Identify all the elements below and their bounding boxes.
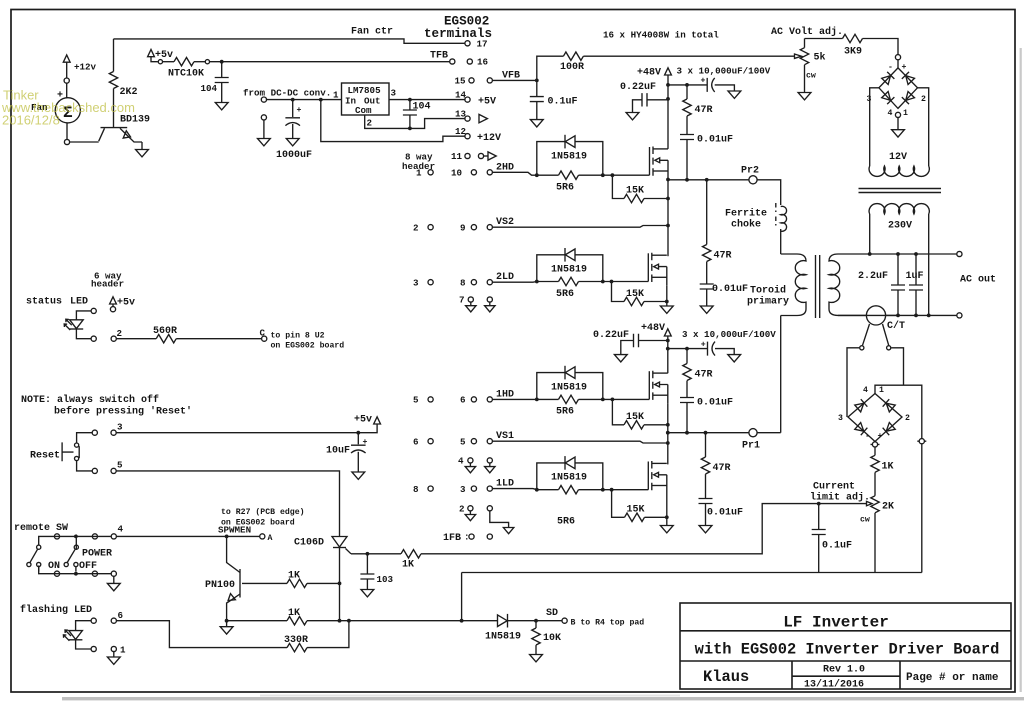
connector pin: [158, 60, 162, 64]
wire: [221, 83, 223, 103]
+12V rail wire: [321, 100, 465, 142]
wire: [70, 141, 99, 143]
node pin: [64, 139, 69, 144]
junction: [601, 398, 605, 402]
svg-text:Pr1: Pr1: [742, 441, 760, 452]
junction: [534, 619, 538, 623]
svg-text:2K2: 2K2: [120, 87, 138, 98]
capacitor body: [403, 110, 417, 115]
junction: [460, 619, 464, 623]
junction: [666, 441, 670, 445]
pin: [75, 456, 79, 460]
junction: [356, 431, 360, 435]
resistor 47R lower: [705, 433, 707, 457]
svg-text:with EGS002 Inverter Driver Bo: with EGS002 Inverter Driver Board: [695, 641, 1000, 659]
pin: [111, 646, 116, 651]
wire: [715, 349, 734, 355]
svg-text:7: 7: [459, 295, 465, 306]
svg-text:+48V: +48V: [641, 323, 665, 334]
capacitor 1uF: [915, 254, 917, 285]
resistor 5R6: [537, 489, 559, 491]
terminal VS1: [487, 439, 492, 444]
junction: [665, 515, 669, 519]
junction: [704, 431, 708, 435]
resistor body: [871, 496, 879, 513]
primary return to Pr1: [780, 316, 782, 433]
wire 1HD: [492, 398, 536, 400]
fan motor M1: [55, 98, 80, 123]
svg-text:Rev 1.0: Rev 1.0: [823, 665, 865, 676]
pin: [860, 346, 864, 350]
svg-text:13: 13: [455, 109, 467, 120]
pin: [74, 562, 78, 566]
mosfet Q5 HY4008W: [648, 461, 667, 494]
mosfet Q4 HY4008W: [649, 371, 668, 404]
wire: [120, 128, 142, 142]
diode body: [565, 456, 575, 470]
riser to current limit rail: [461, 573, 463, 621]
wire Fan ctr: [114, 39, 465, 43]
wire: [915, 290, 917, 315]
svg-text:from DC-DC conv.: from DC-DC conv.: [243, 88, 331, 99]
terminal TFB: [450, 59, 455, 64]
ground under source: [666, 494, 668, 526]
diode body: [565, 366, 575, 380]
diode D3 bottom-left: [881, 91, 894, 104]
capacitor 104: [221, 62, 223, 78]
svg-text:2: 2: [117, 328, 123, 339]
wire: [116, 338, 156, 340]
resistor body: [559, 277, 579, 285]
junction: [927, 314, 931, 318]
led body: [63, 630, 82, 641]
terminal 2HD: [487, 170, 492, 175]
ground: [660, 526, 673, 533]
bridge top to terminal wire: [875, 385, 922, 438]
wire: [77, 461, 93, 471]
wire: [686, 140, 688, 180]
svg-text:0.1uF: 0.1uF: [548, 97, 578, 108]
ground: [286, 139, 299, 146]
diode body: [565, 248, 575, 262]
resistor 5R6: [537, 281, 559, 283]
wire: [706, 289, 708, 306]
svg-text:1: 1: [333, 90, 339, 101]
resistor body: [701, 457, 709, 474]
wire: [267, 99, 342, 101]
wire: [775, 203, 777, 226]
svg-text:11: 11: [451, 151, 463, 162]
+12v supply arrow: [63, 55, 70, 62]
svg-text:15K: 15K: [626, 412, 644, 423]
bottom rail: [462, 572, 922, 574]
svg-text:2: 2: [413, 223, 419, 234]
ground: [258, 139, 271, 146]
pin: [92, 571, 97, 576]
wire: [67, 549, 75, 562]
primary leads: [870, 88, 929, 166]
svg-text:Pr2: Pr2: [741, 166, 759, 177]
svg-text:Toroid: Toroid: [750, 285, 786, 297]
terminal 1LD: [487, 486, 492, 491]
svg-text:10uF: 10uF: [326, 446, 350, 457]
svg-text:header: header: [91, 279, 124, 290]
wire: [575, 142, 603, 176]
pole 1: [37, 545, 41, 549]
mosfet Q2 HY4008W: [650, 147, 669, 180]
wire pin4 SPWMEN: [116, 535, 259, 537]
resistor 2K2: [113, 39, 115, 72]
ground: [798, 93, 811, 100]
wire: [668, 432, 749, 434]
resistor 5R6: [537, 398, 559, 400]
svg-text:A: A: [268, 534, 273, 543]
junction: [225, 619, 229, 623]
diode D2 top-right: [902, 72, 915, 85]
pin to ground jog: [487, 506, 492, 511]
wire: [579, 281, 649, 283]
svg-text:+: +: [297, 106, 302, 115]
wire 2HD: [492, 172, 536, 175]
top row: [39, 536, 112, 545]
svg-text:0.22uF: 0.22uF: [620, 82, 656, 93]
svg-text:14: 14: [455, 90, 467, 101]
pin: [262, 336, 267, 341]
wire: [644, 424, 668, 426]
resistor 15K: [612, 490, 625, 518]
capacitor 104: [409, 100, 411, 110]
capacitor body: [215, 78, 229, 83]
svg-text:4: 4: [118, 524, 124, 535]
svg-text:1K: 1K: [288, 571, 300, 582]
diode D4 bottom-right: [902, 91, 915, 104]
wire: [757, 180, 781, 205]
capacitor bank 10000uF: [668, 84, 707, 86]
wiper arrow: [795, 54, 802, 58]
svg-text:1K: 1K: [288, 608, 300, 619]
input terminal: [261, 97, 266, 102]
svg-text:4: 4: [863, 386, 868, 395]
junction: [225, 535, 229, 539]
svg-text:8: 8: [460, 278, 466, 289]
resistor body: [559, 486, 579, 494]
ground pin: [113, 576, 115, 583]
svg-text:+5v: +5v: [354, 415, 372, 426]
capacitor body: [812, 530, 826, 535]
svg-text:1: 1: [120, 645, 126, 656]
terminal 17: [465, 41, 470, 46]
junction: [601, 280, 605, 284]
pin: [260, 534, 265, 539]
input return pin: [261, 115, 266, 120]
junction: [685, 83, 689, 87]
svg-text:3: 3: [867, 95, 872, 104]
svg-text:47R: 47R: [714, 251, 732, 262]
pin: [110, 307, 115, 312]
svg-text:10: 10: [451, 168, 462, 179]
pin: [111, 618, 116, 623]
capacitor body: [634, 334, 639, 347]
svg-text:SD: SD: [546, 608, 558, 619]
gate wire / resistor 1K: [351, 553, 401, 555]
pin: [37, 562, 41, 566]
svg-text:0.01uF: 0.01uF: [707, 508, 743, 519]
junction: [666, 224, 670, 228]
node Pr2: [749, 176, 757, 184]
wire: [226, 621, 228, 627]
pin: [919, 439, 924, 444]
watermark Tinker www.thebackshed.com 2016/12/8: [1, 88, 135, 128]
resistor body: [287, 617, 307, 625]
wire: [76, 640, 92, 649]
junction: [666, 423, 670, 427]
primary winding: [781, 254, 806, 316]
wire: [113, 89, 115, 128]
wire: [921, 444, 923, 573]
junction: [535, 173, 539, 177]
resistor body: [559, 171, 579, 179]
svg-text:15K: 15K: [627, 504, 645, 515]
wire: [644, 198, 668, 200]
svg-text:100R: 100R: [560, 62, 584, 73]
svg-text:1N5819: 1N5819: [551, 265, 587, 276]
secondary winding: [829, 254, 840, 315]
svg-text:0.22uF: 0.22uF: [593, 330, 629, 341]
svg-text:Klaus: Klaus: [703, 668, 749, 686]
resistor body: [703, 245, 711, 262]
svg-text:C/T: C/T: [887, 320, 905, 332]
wire: [575, 463, 603, 490]
junction: [74, 535, 78, 539]
resistor 1K base: [242, 582, 287, 584]
pin 14: [465, 97, 470, 102]
svg-text:47R: 47R: [695, 370, 713, 381]
pin: [54, 571, 59, 576]
svg-text:3K9: 3K9: [844, 47, 862, 58]
svg-text:3: 3: [117, 422, 123, 433]
wire to C: [176, 338, 261, 340]
svg-text:3: 3: [391, 88, 397, 99]
+48V supply arrow: [665, 68, 672, 75]
junction: [535, 79, 539, 83]
wire: [292, 124, 294, 139]
ground: [215, 103, 228, 110]
230V winding: [869, 204, 929, 214]
capacitor body: [530, 97, 544, 102]
wire: [492, 226, 668, 228]
wire: [715, 85, 735, 91]
svg-text:1: 1: [879, 386, 884, 395]
+5v supply arrow: [374, 417, 381, 424]
ground: [660, 306, 673, 313]
junction: [535, 398, 539, 402]
wire pin6: [116, 621, 287, 648]
scan artifact right edge: [1020, 48, 1022, 692]
svg-text:OFF: OFF: [79, 561, 97, 572]
wire: [227, 594, 240, 621]
mosfet Q3 HY4008W: [648, 253, 667, 285]
svg-text:104: 104: [201, 83, 218, 94]
junction: [74, 572, 78, 576]
wire: [667, 75, 669, 149]
capacitor body: [642, 93, 647, 106]
svg-text:5R6: 5R6: [556, 289, 574, 300]
svg-text:+12V: +12V: [477, 133, 501, 144]
pin: [562, 618, 567, 623]
svg-text:cw: cw: [806, 72, 816, 81]
wire to pot: [583, 55, 794, 57]
wire: [227, 536, 240, 572]
svg-text:0.1uF: 0.1uF: [822, 541, 852, 552]
wire: [123, 131, 130, 138]
junction: [666, 347, 670, 351]
junction: [611, 398, 615, 402]
wire: [575, 255, 603, 282]
pin 12: [465, 134, 470, 139]
resistor 10K: [535, 621, 537, 628]
diode D10 bottom-left: [854, 422, 867, 435]
thermistor NTC10K: [174, 58, 194, 66]
capacitor body: [707, 78, 715, 92]
svg-text:8: 8: [413, 484, 419, 495]
junction: [220, 60, 224, 64]
svg-text:15: 15: [455, 76, 467, 87]
resistor body: [624, 194, 644, 202]
capacitor 0.1uF: [818, 504, 820, 530]
wire: [194, 61, 205, 63]
svg-text:Current: Current: [813, 482, 855, 493]
bottom rail: [838, 314, 957, 316]
secondary leads: [870, 214, 929, 315]
wire: [575, 373, 603, 400]
pin: [111, 571, 116, 576]
pin: [487, 534, 492, 539]
diamond: [848, 394, 902, 442]
wire: [705, 504, 707, 526]
wire pin3: [116, 424, 377, 433]
svg-text:3 x 10,000uF/100V: 3 x 10,000uF/100V: [677, 66, 771, 77]
svg-text:to R27 (PCB edge): to R27 (PCB edge): [221, 507, 305, 517]
svg-text:Page # or name: Page # or name: [906, 672, 999, 684]
svg-text:1: 1: [903, 109, 908, 118]
wire: [66, 83, 68, 98]
wire: [239, 569, 241, 598]
junction: [914, 252, 918, 256]
resistor 5R6: [537, 174, 559, 176]
resistor body: [800, 48, 808, 65]
svg-text:5: 5: [117, 460, 123, 471]
svg-text:terminals: terminals: [424, 27, 492, 41]
+5v supply arrow: [148, 50, 155, 57]
svg-text:+48V: +48V: [637, 68, 661, 79]
wire: [113, 652, 115, 657]
junction: [817, 502, 821, 506]
junction: [666, 339, 670, 343]
wire: [535, 645, 537, 654]
junction: [665, 300, 669, 304]
svg-text:12V: 12V: [889, 152, 907, 163]
pin: [111, 336, 116, 341]
ground: [626, 113, 639, 120]
junction: [338, 619, 342, 623]
CT leads: [847, 348, 904, 417]
diode D1 top-left: [881, 72, 894, 85]
junction: [896, 252, 900, 256]
wire TFB to terminal: [210, 61, 450, 63]
ground: [699, 526, 712, 533]
junction: [666, 197, 670, 201]
svg-text:LED: LED: [70, 297, 88, 308]
wire: [863, 39, 899, 55]
wire: [263, 120, 265, 139]
svg-text:+: +: [701, 77, 706, 86]
ground: [107, 583, 120, 590]
capacitor 0.01uF upper: [680, 398, 694, 403]
svg-text:6: 6: [460, 395, 466, 406]
wire: [76, 329, 91, 339]
wire: [705, 474, 707, 498]
ground: [700, 306, 713, 313]
wire: [536, 102, 538, 120]
junction: [896, 314, 900, 318]
svg-text:3: 3: [413, 278, 419, 289]
svg-text:primary: primary: [747, 296, 789, 308]
svg-text:5: 5: [413, 395, 419, 406]
ground: [530, 120, 543, 127]
ground: [220, 627, 233, 634]
wire: [579, 398, 650, 400]
svg-text:AC Volt adj.: AC Volt adj.: [771, 26, 843, 38]
svg-text:15K: 15K: [626, 186, 644, 197]
wire: [30, 549, 38, 562]
svg-text:flashing LED: flashing LED: [20, 604, 92, 616]
resistor 330R: [287, 643, 307, 651]
wire 1LD: [492, 489, 536, 490]
wire: [781, 206, 787, 231]
pin: [92, 430, 97, 435]
wire: [633, 100, 669, 113]
resistor 100R: [563, 52, 583, 60]
node Pr1: [749, 429, 757, 437]
wire: [537, 56, 564, 80]
svg-text:5R6: 5R6: [556, 407, 574, 418]
junction: [610, 488, 614, 492]
junction: [705, 178, 709, 182]
svg-text:5k: 5k: [814, 52, 826, 64]
ground: [614, 355, 627, 362]
svg-text:230V: 230V: [888, 221, 912, 232]
led body: [64, 319, 83, 330]
capacitor 103: [366, 554, 368, 574]
resistor body: [287, 579, 307, 587]
wire: [686, 116, 688, 134]
svg-text:+5v: +5v: [117, 298, 135, 309]
pin: [75, 443, 79, 447]
svg-text:Ferrite: Ferrite: [725, 208, 767, 220]
svg-text:330R: 330R: [284, 635, 308, 646]
wire: [645, 516, 667, 518]
resistor 15K: [612, 399, 624, 424]
svg-text:+5v: +5v: [155, 50, 173, 61]
junction: [666, 97, 670, 101]
junction: [685, 431, 689, 435]
svg-text:4: 4: [888, 109, 893, 118]
scan artifact bottom stripe: [62, 697, 1024, 700]
wire: [668, 179, 749, 181]
wire: [421, 504, 867, 554]
resistor body: [683, 99, 691, 116]
pin: [895, 112, 900, 117]
